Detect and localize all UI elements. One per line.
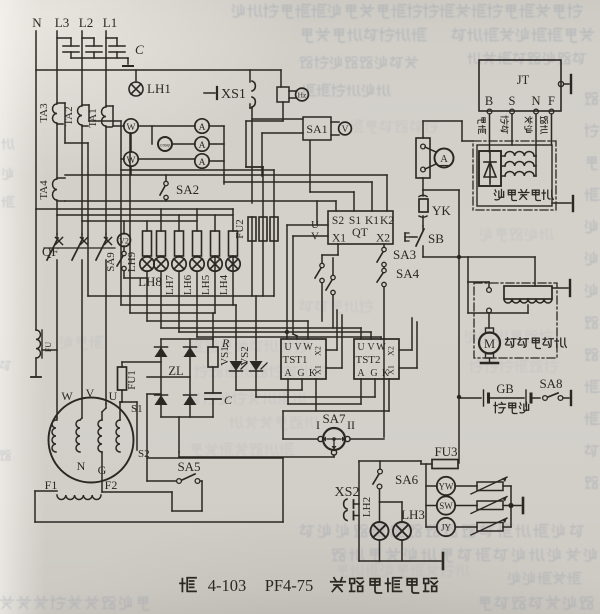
wire SA7 right arm to SA4 <box>350 438 384 440</box>
label V wire into QT <box>293 231 328 243</box>
wire TST gate bus y397 <box>256 379 375 397</box>
wire band h y321 <box>147 271 308 339</box>
svg-text:L3: L3 <box>55 15 69 30</box>
wire TA4 tap to U drop <box>316 201 318 225</box>
voltmeter V <box>331 122 351 135</box>
push button SB <box>405 226 444 257</box>
capacitor bank C on L1 <box>106 38 125 58</box>
svg-text:C: C <box>224 393 233 407</box>
wire FU1 to ZL ac input <box>122 361 161 363</box>
wire SA7 left arm <box>283 411 318 439</box>
label W phase <box>61 389 73 403</box>
terminal F of JT <box>548 94 555 145</box>
wire stator star point to N <box>534 156 536 176</box>
svg-text:LH1: LH1 <box>147 81 171 96</box>
switch SA3 <box>377 244 416 267</box>
svg-text:M: M <box>484 337 495 351</box>
svg-text:SA7: SA7 <box>322 411 346 426</box>
solenoid contact lower <box>468 305 528 328</box>
svg-text:N: N <box>32 15 42 30</box>
node L2 label and line <box>79 15 93 234</box>
wire TST gate bus y390 <box>236 379 302 390</box>
svg-text:S: S <box>509 94 516 108</box>
terminal S of JT <box>509 94 516 145</box>
node L1 label and line <box>103 15 117 234</box>
svg-text:K: K <box>382 368 390 379</box>
svg-text:X2: X2 <box>376 233 390 245</box>
relay JY <box>426 518 477 536</box>
svg-text:YK: YK <box>432 203 451 218</box>
label U wire into QT <box>287 219 328 231</box>
label zhongdian (midpoint) rotated <box>525 116 532 132</box>
label chongdianfadianji (charging generator) <box>494 189 553 200</box>
lamp LH3 <box>380 502 425 561</box>
svg-text:LH3: LH3 <box>401 507 425 522</box>
switch contacts below X1 <box>315 244 338 321</box>
terminal N of JT <box>531 94 540 156</box>
svg-text:X2: X2 <box>314 346 323 356</box>
indicator lamp column 1 <box>140 256 154 271</box>
wire SA1 feeds <box>252 119 303 133</box>
regulator JT box <box>479 60 561 111</box>
wire ZL negative drop <box>178 417 180 452</box>
svg-text:SB: SB <box>428 231 444 246</box>
svg-text:QT: QT <box>352 225 369 239</box>
wire A-row to QT K1 <box>224 182 372 211</box>
svg-text:LH9: LH9 <box>126 251 138 272</box>
diode ZL top-left <box>155 347 168 357</box>
solenoid body with windings <box>504 286 552 303</box>
wire ammeter common drop <box>223 126 225 184</box>
svg-text:GB: GB <box>496 382 513 396</box>
svg-text:F1: F1 <box>45 478 58 492</box>
diode ZL top-right <box>184 347 197 357</box>
diode ZL bottom-right <box>184 395 197 405</box>
svg-text:S1: S1 <box>131 403 143 415</box>
resistor ballast 4 <box>193 209 202 256</box>
CT TA4 <box>38 178 65 201</box>
svg-text:SA6: SA6 <box>395 472 419 487</box>
relay SW <box>426 496 477 514</box>
wire lamp feed bus N <box>36 208 233 210</box>
wire capacitor common bus to terminal C <box>71 42 144 66</box>
selector switch SA1 box <box>303 117 331 140</box>
resistor ballast 1 <box>143 221 152 256</box>
svg-text:LH4: LH4 <box>218 274 230 295</box>
diode ZL bottom-left <box>155 395 168 405</box>
svg-text:A: A <box>199 158 206 168</box>
svg-text:VS1: VS1 <box>219 346 231 366</box>
svg-text:S2: S2 <box>332 215 344 227</box>
svg-text:B: B <box>485 94 493 108</box>
sensor YK <box>419 190 451 226</box>
svg-text:JT: JT <box>517 73 530 87</box>
svg-text:FU: FU <box>44 342 53 352</box>
ammeter A1 <box>195 119 224 133</box>
svg-text:TA2: TA2 <box>63 106 75 125</box>
svg-text:FU2: FU2 <box>234 219 246 239</box>
wattmeter W lower <box>89 121 195 175</box>
label U phase <box>109 389 118 403</box>
wire band h y332 <box>179 271 371 339</box>
svg-text:SA5: SA5 <box>177 459 200 474</box>
wire main positive bus <box>457 190 461 463</box>
CT TA1 <box>87 106 113 128</box>
starter motor M <box>479 328 500 363</box>
svg-text:XS2: XS2 <box>335 485 360 500</box>
charging generator inner box <box>477 145 552 206</box>
svg-text:L2: L2 <box>79 15 93 30</box>
CT TA2 <box>63 105 89 126</box>
wire TST anode bus y404 <box>288 379 361 404</box>
terminal B of JT <box>485 94 493 152</box>
wire fuse feed lower <box>121 169 274 171</box>
svg-text:W: W <box>376 342 386 353</box>
svg-text:LH7: LH7 <box>164 274 176 295</box>
svg-text:K: K <box>309 368 317 379</box>
wire SA1 bottom to QT S1 <box>310 141 354 211</box>
fuse FU3 <box>421 444 458 469</box>
terminal charging generator output bar <box>552 196 573 211</box>
battery GB <box>459 382 540 406</box>
indicator lamp column 6 <box>226 256 240 271</box>
socket XS2 <box>335 485 360 521</box>
svg-text:L1: L1 <box>103 15 117 30</box>
starter enclosure dash-dot box <box>474 283 557 358</box>
svg-text:TA4: TA4 <box>38 180 50 200</box>
caption figure number and title <box>180 576 437 595</box>
svg-text:A: A <box>199 123 206 133</box>
svg-text:N: N <box>531 94 540 108</box>
svg-text:TST2: TST2 <box>355 354 380 366</box>
svg-text:K2: K2 <box>380 215 394 227</box>
wire band h y313 <box>130 133 215 339</box>
svg-text:II: II <box>347 418 355 432</box>
wire band h y305 <box>121 159 236 305</box>
resistor ballast 6 <box>229 209 238 256</box>
wire fuse feed upper <box>246 166 263 168</box>
svg-text:cosφ: cosφ <box>160 144 170 149</box>
svg-text:4-103: 4-103 <box>208 576 247 595</box>
svg-text:Hz: Hz <box>298 91 307 100</box>
svg-text:TA3: TA3 <box>38 103 50 123</box>
svg-text:C: C <box>135 42 144 57</box>
svg-text:G: G <box>370 368 377 379</box>
svg-text:X1: X1 <box>332 233 346 245</box>
power factor meter cos-phi <box>152 126 195 151</box>
wire relay left bus <box>425 464 427 527</box>
switch SA6 <box>373 461 419 502</box>
svg-text:LH8: LH8 <box>138 274 162 289</box>
wire N bus to XS1/Hz <box>36 69 281 71</box>
rectifier ZL bridge frame <box>161 339 213 417</box>
generator winding W <box>52 418 57 452</box>
label anniu (button) rotated <box>501 116 509 133</box>
indicator lamp column 5 <box>208 256 222 271</box>
wire shunt top to right bus <box>423 121 473 141</box>
svg-text:SA8: SA8 <box>539 376 562 391</box>
resistor ballast 3 <box>175 215 184 256</box>
wire band h y328 <box>161 271 361 339</box>
wire bus TA4 upper tap to QT K2 <box>65 175 387 211</box>
DC ammeter A <box>425 147 454 169</box>
thyristor VS2 <box>239 296 267 397</box>
fuse FU2 group <box>234 167 278 241</box>
svg-text:VS2: VS2 <box>239 346 251 366</box>
terminal S1 wires <box>120 402 143 450</box>
svg-text:A: A <box>284 368 292 379</box>
fuse FU1 <box>118 362 139 402</box>
svg-text:SA3: SA3 <box>393 247 416 262</box>
rectifier diode of charging generator <box>479 151 501 186</box>
wire lamp feed bus phase b <box>82 220 197 222</box>
svg-text:V: V <box>86 386 95 400</box>
label qidongdiandongji (starter motor) <box>505 338 566 349</box>
stator winding row 1 <box>501 151 534 156</box>
wire band h y337 <box>197 271 381 339</box>
ammeter A3 <box>195 154 224 168</box>
switch contacts second pole <box>326 258 335 328</box>
svg-text:U: U <box>109 389 118 403</box>
svg-text:FU3: FU3 <box>434 444 457 459</box>
indicator lamp column 3 <box>172 256 186 271</box>
switch SA9 with lamp LH9 <box>105 246 147 278</box>
wire SB branch to solenoid <box>423 257 535 286</box>
wire Hz drop <box>246 121 283 176</box>
label cichang (field) rotated <box>541 117 548 134</box>
switch SA4 <box>377 266 420 437</box>
lamp LH2 <box>361 497 389 561</box>
generator stator circle <box>49 398 134 483</box>
wire TST cathode bus y411 <box>283 379 389 411</box>
label V phase <box>86 386 95 400</box>
svg-text:A: A <box>357 368 365 379</box>
wire shunt bottom junction <box>423 178 459 190</box>
svg-text:U: U <box>284 342 292 353</box>
svg-text:V: V <box>294 342 302 353</box>
label dianshu (armature) rotated <box>478 118 486 134</box>
ammeter A2 <box>195 137 224 151</box>
resistor R <box>208 336 230 367</box>
wire SA7 bottom bus <box>179 452 334 457</box>
label xudianchi (storage battery) <box>494 402 529 413</box>
svg-text:N: N <box>77 459 86 473</box>
indicator lamp column 4 <box>190 256 204 271</box>
switch SA5 <box>147 459 202 483</box>
svg-text:W: W <box>127 123 136 133</box>
wire second ZL ac input <box>147 376 190 378</box>
wire band h y296 <box>88 143 274 296</box>
svg-text:X2: X2 <box>387 346 396 356</box>
svg-text:LH2: LH2 <box>361 497 373 517</box>
svg-text:ZL: ZL <box>168 364 183 378</box>
svg-text:V: V <box>342 125 349 135</box>
svg-text:W: W <box>61 389 73 403</box>
svg-text:FU1: FU1 <box>126 370 138 390</box>
wattmeter W upper <box>65 119 195 143</box>
wire TST2 X2 X1 <box>399 318 417 368</box>
svg-text:SA2: SA2 <box>176 182 199 197</box>
wire field loop bottom <box>35 491 283 522</box>
wire G terminal zigzag to SA5 <box>102 452 202 511</box>
svg-text:YW: YW <box>439 482 454 492</box>
wire bus TA4 lower tap to QT S2 <box>65 201 336 211</box>
circuit breaker QF <box>42 234 115 418</box>
wire U drop to TST1 <box>285 225 289 339</box>
wire bottom bus with terminal <box>359 553 443 569</box>
stator winding row 3 <box>501 172 534 177</box>
rheostat for JY <box>471 518 511 535</box>
svg-text:F2: F2 <box>105 478 118 492</box>
generator winding U <box>98 404 106 452</box>
indicator lamp column 2 <box>154 256 168 271</box>
node L3 label and line <box>55 15 69 234</box>
frequency meter Hz <box>277 70 308 121</box>
wire TST1 X2 X1 <box>326 310 342 368</box>
stator winding row 2 <box>501 162 534 167</box>
svg-text:F: F <box>548 94 555 108</box>
svg-text:SA4: SA4 <box>396 266 420 281</box>
generator winding V <box>76 418 82 452</box>
svg-text:SW: SW <box>439 501 453 511</box>
svg-text:G: G <box>297 368 304 379</box>
svg-text:W: W <box>127 156 136 166</box>
svg-text:PF4-75: PF4-75 <box>265 576 314 595</box>
svg-text:W: W <box>303 342 313 353</box>
svg-text:SA9: SA9 <box>105 252 117 272</box>
svg-text:I: I <box>316 418 320 432</box>
resistor ballast 5 <box>211 215 220 256</box>
svg-text:TST1: TST1 <box>282 354 307 366</box>
wire relay right bus with terminal <box>508 486 523 527</box>
charging generator dash-dot enclosure <box>473 141 556 210</box>
wire frame to SA6 and FU3 <box>359 461 421 561</box>
terminal JT right with bar <box>558 75 571 93</box>
svg-text:SA1: SA1 <box>306 122 327 136</box>
capacitor bank C on L2 <box>82 38 102 58</box>
lamp LH1 <box>129 70 171 96</box>
rotary switch SA7 <box>316 411 355 455</box>
rheostat for YW <box>471 477 511 494</box>
thyristor module TST1 <box>281 339 326 379</box>
svg-text:JY: JY <box>441 523 452 533</box>
field winding F1 F2 <box>35 478 117 500</box>
wire S2 run to bottom loop <box>147 458 283 522</box>
capacitor bank C on L3 <box>57 38 79 58</box>
CT TA3 <box>38 103 65 143</box>
resistor ballast 2 <box>157 209 166 256</box>
wire solenoid to battery terminal bar <box>552 280 570 296</box>
solenoid contact upper <box>468 257 491 313</box>
svg-text:A: A <box>440 154 448 165</box>
terminal S2 wires <box>138 394 161 481</box>
generator winding exciter <box>116 402 120 452</box>
socket XS1 <box>204 70 255 203</box>
svg-text:TA1: TA1 <box>87 108 99 127</box>
wire lamp feed bus phase a <box>57 214 233 216</box>
rheostat for SW <box>471 497 511 514</box>
svg-text:LH5: LH5 <box>200 274 212 295</box>
capacitor C filter <box>205 367 233 417</box>
svg-text:U: U <box>357 342 365 353</box>
svg-text:A: A <box>199 141 206 151</box>
node N label and line <box>32 15 42 209</box>
svg-text:V: V <box>367 342 375 353</box>
thyristor module TST2 <box>354 339 399 379</box>
thyristor VS1 <box>219 305 247 390</box>
svg-text:LH6: LH6 <box>182 274 194 295</box>
shunt box for ammeter <box>416 138 430 178</box>
switch SA8 <box>539 376 571 405</box>
relay YW <box>426 477 477 495</box>
wire V drop to TST1 <box>293 236 297 339</box>
control unit QT box <box>328 211 394 245</box>
potential transformer on N line <box>31 209 57 377</box>
svg-text:XS1: XS1 <box>221 87 246 102</box>
voltmeter V2 <box>118 221 131 247</box>
switch SA2 <box>160 175 199 201</box>
